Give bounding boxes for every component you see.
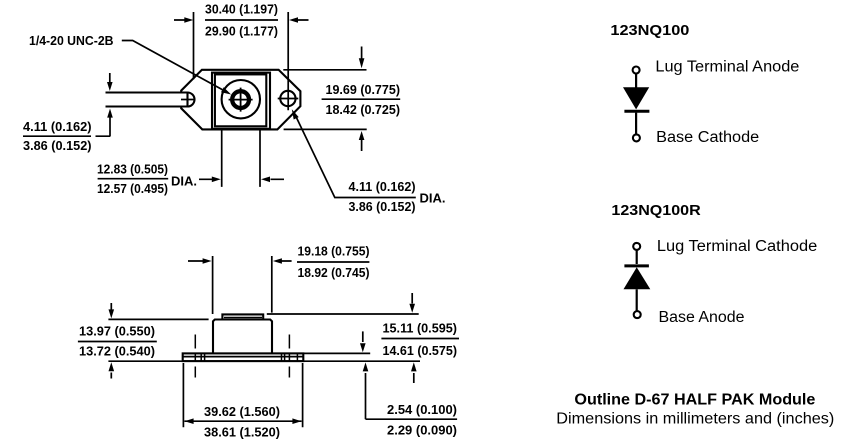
diode 123NQ100R triangle: [624, 267, 651, 289]
svg-text:123NQ100R: 123NQ100R: [611, 202, 700, 219]
diode 123NQ100R cathode bar: [624, 264, 649, 267]
svg-text:123NQ100: 123NQ100: [610, 22, 689, 39]
dim 12.83 fraction line: [98, 178, 169, 180]
right hole crosshair: [278, 98, 299, 100]
dim 4.11 fraction + leader line: [23, 135, 110, 137]
dim 4.11 dia fraction line: [348, 197, 416, 199]
svg-text:13.72 (0.540): 13.72 (0.540): [79, 344, 155, 359]
leader right hole dia: [296, 117, 348, 197]
svg-text:4.11 (0.162): 4.11 (0.162): [349, 179, 416, 194]
side view body: [213, 320, 272, 354]
dim 13.97 extension lines: [108, 319, 208, 361]
svg-text:DIA.: DIA.: [171, 174, 197, 189]
dim 2.54 fraction line: [366, 418, 458, 420]
svg-text:13.97 (0.550): 13.97 (0.550): [79, 324, 155, 339]
center tapped hole ring: [232, 91, 249, 108]
svg-text:12.83 (0.505): 12.83 (0.505): [97, 162, 168, 177]
right mounting hole: [280, 91, 295, 106]
svg-text:39.62 (1.560): 39.62 (1.560): [204, 404, 280, 419]
svg-text:DIA.: DIA.: [420, 191, 446, 206]
diode 123NQ100R anode lead: [636, 289, 638, 311]
svg-text:3.86 (0.152): 3.86 (0.152): [349, 199, 416, 214]
dim 19.69 extension lines: [283, 70, 366, 130]
flange-bottom extension line right: [304, 360, 420, 362]
svg-text:15.11 (0.595): 15.11 (0.595): [383, 321, 458, 336]
diode 123NQ100 cathode bar: [624, 110, 649, 113]
ceramic body outer square: [212, 73, 270, 129]
diode 123NQ100 top terminal: [633, 67, 640, 74]
svg-text:18.92 (0.745): 18.92 (0.745): [298, 265, 370, 280]
hole centerline left (dashed): [194, 335, 196, 378]
flange outline (top view octagon with slot gap on left): [181, 70, 300, 130]
dim 19.69 fraction line: [322, 98, 401, 100]
dim 13.97 arrows: [110, 303, 112, 379]
svg-text:Lug Terminal Cathode: Lug Terminal Cathode: [657, 238, 817, 255]
dim 30.40 fraction line: [205, 19, 278, 21]
dim 13.97 fraction line: [78, 341, 157, 343]
svg-text:3.86 (0.152): 3.86 (0.152): [23, 138, 92, 153]
dim 2.54 leader with up arrow: [365, 373, 367, 419]
dim 19.18 extension lines: [213, 256, 272, 314]
dim 12.83 extension lines: [222, 130, 260, 187]
svg-text:Outline D-67 HALF PAK Module: Outline D-67 HALF PAK Module: [574, 392, 815, 409]
dim 2.54 top arrow: [362, 331, 364, 342]
diode 123NQ100R top terminal: [633, 243, 640, 250]
diode 123NQ100 triangle: [623, 87, 649, 109]
svg-text:19.69 (0.775): 19.69 (0.775): [326, 82, 401, 97]
svg-text:38.61 (1.520): 38.61 (1.520): [204, 425, 280, 440]
svg-text:29.90 (1.177): 29.90 (1.177): [205, 24, 278, 39]
dim 2.54 flange-top extension line: [304, 352, 370, 354]
dim 30.40 arrows: [174, 19, 309, 21]
dim 19.18 fraction line: [297, 261, 369, 263]
dim 39.62 extension lines: [183, 363, 302, 427]
diode 123NQ100R bottom terminal: [634, 311, 641, 318]
side view flange: [183, 353, 304, 361]
center hole crosshair: [229, 88, 253, 112]
diode 123NQ100 bottom terminal: [633, 134, 640, 141]
svg-text:12.57 (0.495): 12.57 (0.495): [97, 181, 168, 196]
diode 123NQ100R cathode lead: [636, 250, 638, 264]
side view cap: [222, 314, 263, 319]
dim 15.11 cap-top extension line: [267, 313, 419, 315]
svg-text:Base Cathode: Base Cathode: [656, 129, 759, 146]
svg-text:2.29 (0.090): 2.29 (0.090): [387, 423, 457, 438]
svg-text:1/4-20 UNC-2B: 1/4-20 UNC-2B: [29, 33, 114, 48]
dim 19.69 arrows: [361, 47, 363, 152]
svg-text:30.40 (1.197): 30.40 (1.197): [205, 2, 278, 17]
mounting slot (left, open): [106, 93, 188, 107]
ceramic body inner square: [215, 74, 266, 126]
dim 19.18 arrows: [188, 260, 292, 262]
leader 1/4-20 UNC-2B: [122, 41, 223, 90]
slot rounded end arc: [188, 93, 195, 107]
diode 123NQ100 cathode lead: [635, 113, 637, 135]
terminal circle (large): [222, 80, 260, 118]
slot center line: [181, 99, 195, 101]
svg-text:19.18 (0.755): 19.18 (0.755): [298, 244, 370, 259]
dim 12.83 arrows: [199, 178, 284, 180]
dim 15.11 top arrow: [411, 293, 413, 304]
hole centerline right (dashed): [288, 335, 290, 378]
svg-text:Dimensions in millimeters and: Dimensions in millimeters and (inches): [556, 411, 834, 428]
svg-text:4.11 (0.162): 4.11 (0.162): [23, 119, 92, 134]
flange section ticks: [201, 353, 297, 361]
diode 123NQ100 anode lead: [635, 74, 637, 88]
dim 4.11 slot arrows: [109, 73, 111, 137]
dim 15.11 fraction line: [381, 338, 459, 340]
dim 30.40 extension lines: [194, 12, 289, 110]
svg-text:14.61 (0.575): 14.61 (0.575): [383, 343, 458, 358]
dim 39.62 dimension line with outward arrows: [184, 420, 301, 422]
svg-text:2.54 (0.100): 2.54 (0.100): [387, 402, 457, 417]
dim 15.11 bottom up arrow: [413, 373, 415, 383]
svg-text:Base Anode: Base Anode: [659, 309, 745, 326]
svg-text:18.42 (0.725): 18.42 (0.725): [326, 102, 401, 117]
svg-text:Lug Terminal Anode: Lug Terminal Anode: [655, 59, 799, 76]
